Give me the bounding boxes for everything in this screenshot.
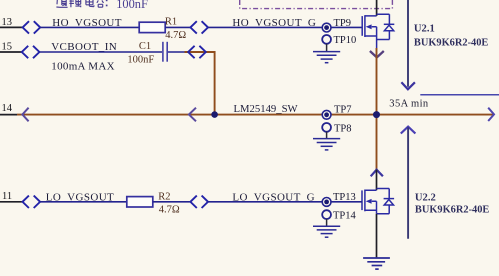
svg-text:14: 14: [2, 103, 13, 114]
current arrow left at pin 14: [22, 108, 28, 122]
pin 11: [0, 191, 22, 202]
arrow right end of SW wire: [488, 108, 494, 121]
svg-text:R1: R1: [165, 17, 177, 28]
port chevrons LO_VGSOUT: [23, 196, 41, 208]
transistor U2.1 N-MOSFET: [362, 14, 394, 48]
svg-text:TP13: TP13: [333, 192, 356, 203]
annotation line with down arrow (high side current): [401, 0, 415, 89]
svg-text:U2.2: U2.2: [415, 193, 436, 204]
svg-text:C1: C1: [139, 41, 151, 52]
wire HO_VGSOUT to R1: [40, 26, 139, 28]
wire LO_VGSOUT to R2: [40, 201, 127, 203]
current arrow down at U2.1 source: [370, 51, 384, 57]
svg-text:TP9: TP9: [334, 18, 352, 29]
svg-text:U2.1: U2.1: [414, 24, 435, 35]
svg-text:100mA MAX: 100mA MAX: [51, 61, 115, 73]
svg-text:TP8: TP8: [334, 123, 352, 134]
resistor R1: [139, 22, 165, 32]
test point TP9: [322, 23, 331, 32]
wire U2.1 source down to SW: [376, 48, 378, 115]
annotation line with up arrow (low side current): [401, 127, 416, 239]
svg-text:TP7: TP7: [334, 104, 352, 115]
svg-text:35A min: 35A min: [389, 98, 429, 109]
port chevrons VCBOOT_IN: [22, 46, 40, 58]
ground at TP14: [313, 219, 340, 237]
ground at TP10: [313, 44, 340, 63]
wire LO_VGSOUT_G to U2.2 gate: [208, 201, 362, 203]
current arrow up at U2.2 drain: [371, 170, 383, 177]
capacitor C1 plates: [163, 42, 167, 62]
pin 14: [0, 103, 17, 114]
svg-text:4.7Ω: 4.7Ω: [165, 30, 186, 41]
wire HO_VGSOUT_G to U2.1 gate: [208, 26, 362, 28]
port chevrons after R2: [190, 196, 208, 208]
junction node C1/SW: [211, 111, 218, 118]
current arrow mid SW: [189, 108, 196, 122]
note: colon of top text: [106, 0, 108, 6]
pin 13: [0, 17, 22, 28]
port chevrons after C1: [188, 46, 206, 58]
transistor U2.2 N-MOSFET: [362, 189, 394, 214]
port chevrons HO_VGSOUT: [23, 21, 41, 33]
resistor R2: [127, 197, 153, 207]
wire drain U2.1 from top: [376, 0, 378, 16]
test point TP8: [322, 123, 331, 132]
test point TP10: [322, 35, 331, 44]
wire C1 to chevrons: [168, 51, 185, 53]
test point TP14: [322, 210, 331, 219]
wire LM25149_SW horizontal: [17, 114, 494, 116]
junction node SW/U2: [373, 111, 380, 118]
ground at TP8: [313, 132, 340, 150]
ground at U2.2 source: [363, 258, 390, 269]
test point TP13: [322, 198, 331, 207]
note: decoupling capacitor text (top, cut off): [56, 0, 103, 7]
svg-text:BUK9K6R2-40E: BUK9K6R2-40E: [415, 205, 490, 216]
svg-text:13: 13: [2, 17, 13, 28]
svg-text:R2: R2: [158, 192, 170, 203]
boundary: dash-dot block outline: [240, 0, 393, 9]
wire U2.2 drain black segment: [376, 170, 378, 191]
svg-text:TP10: TP10: [334, 35, 357, 46]
wire SW down to U2.2 drain: [376, 115, 378, 170]
test point TP7: [322, 110, 331, 119]
svg-text:BUK9K6R2-40E: BUK9K6R2-40E: [414, 38, 489, 49]
wire R1 to chevrons: [165, 26, 190, 28]
svg-text:100nF: 100nF: [127, 55, 154, 66]
svg-text:LM25149_SW: LM25149_SW: [234, 103, 299, 115]
svg-text:100nF: 100nF: [116, 0, 148, 11]
wire U2.2 source to ground: [376, 214, 378, 258]
wire R2 to chevrons: [153, 201, 191, 203]
pin 15: [0, 42, 22, 53]
svg-text:15: 15: [2, 42, 13, 53]
svg-text:11: 11: [2, 191, 12, 202]
svg-text:4.7Ω: 4.7Ω: [159, 204, 180, 215]
svg-text:TP14: TP14: [333, 210, 357, 221]
port chevrons after R1: [190, 21, 208, 33]
wire brown C1 out corner down to SW: [185, 52, 215, 115]
wire VCBOOT_IN to C1: [39, 51, 162, 53]
annotation overline right of 35A min: [420, 94, 499, 96]
